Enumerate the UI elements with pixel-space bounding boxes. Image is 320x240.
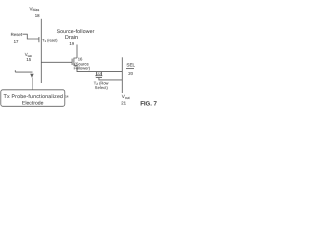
transistor T1 (reset) channel — [40, 37, 42, 43]
node Vbias supply wire — [40, 19, 42, 37]
wire node Vwe to source-follower gate — [41, 61, 72, 63]
svg-text:T1 (reset): T1 (reset) — [42, 39, 57, 44]
transistor 22 row-select channel — [95, 75, 102, 77]
svg-text:20: 20 — [128, 71, 133, 76]
svg-text:Vbias: Vbias — [30, 6, 40, 12]
wire T1 source down to node Vwe and electrode — [40, 43, 42, 84]
svg-text:Source-follower: Source-follower — [57, 29, 95, 35]
transistor 22 row-select drain/source leads — [96, 72, 101, 76]
svg-text:Reset: Reset — [11, 32, 23, 37]
svg-text:FIG. 7: FIG. 7 — [140, 100, 157, 107]
transistor T1 gate lead with step from Reset label — [23, 34, 39, 39]
transistor T1 gate bar — [38, 37, 40, 42]
arrowhead pointing at electrode — [30, 74, 33, 78]
svg-text:19: 19 — [69, 41, 74, 46]
svg-text:14: 14 — [65, 95, 69, 99]
svg-text:18: 18 — [35, 13, 40, 18]
svg-text:Select): Select) — [95, 85, 109, 90]
wire SEL / Vout column line — [121, 57, 123, 93]
wire source-follower source to row-select and SEL/Vout line — [77, 65, 122, 71]
electrode plate bar — [15, 71, 32, 73]
wire source-follower drain — [76, 45, 78, 59]
svg-text:17: 17 — [14, 39, 19, 44]
label box Tx Probe-functionalized Electrode — [1, 90, 65, 107]
svg-text:Vout: Vout — [122, 94, 130, 100]
svg-text:SEL: SEL — [126, 62, 135, 67]
transistor 22 row-select gate bar — [96, 77, 102, 79]
wire row-select gate to SEL line — [99, 78, 122, 80]
SEL label underline — [126, 68, 134, 70]
svg-text:Electrode: Electrode — [22, 100, 44, 106]
leader from label box to electrode — [31, 78, 33, 90]
transistor 16 source-follower channel with jogs — [74, 58, 77, 65]
svg-text:22: 22 — [97, 72, 101, 76]
svg-text:Follower): Follower) — [74, 65, 91, 70]
svg-text:21: 21 — [121, 100, 126, 105]
svg-text:15: 15 — [26, 57, 31, 62]
electrode plate end tick — [14, 70, 16, 72]
transistor 16 source-follower gate bar — [71, 59, 73, 65]
svg-text:Tx Probe-functionalized: Tx Probe-functionalized — [4, 94, 64, 100]
